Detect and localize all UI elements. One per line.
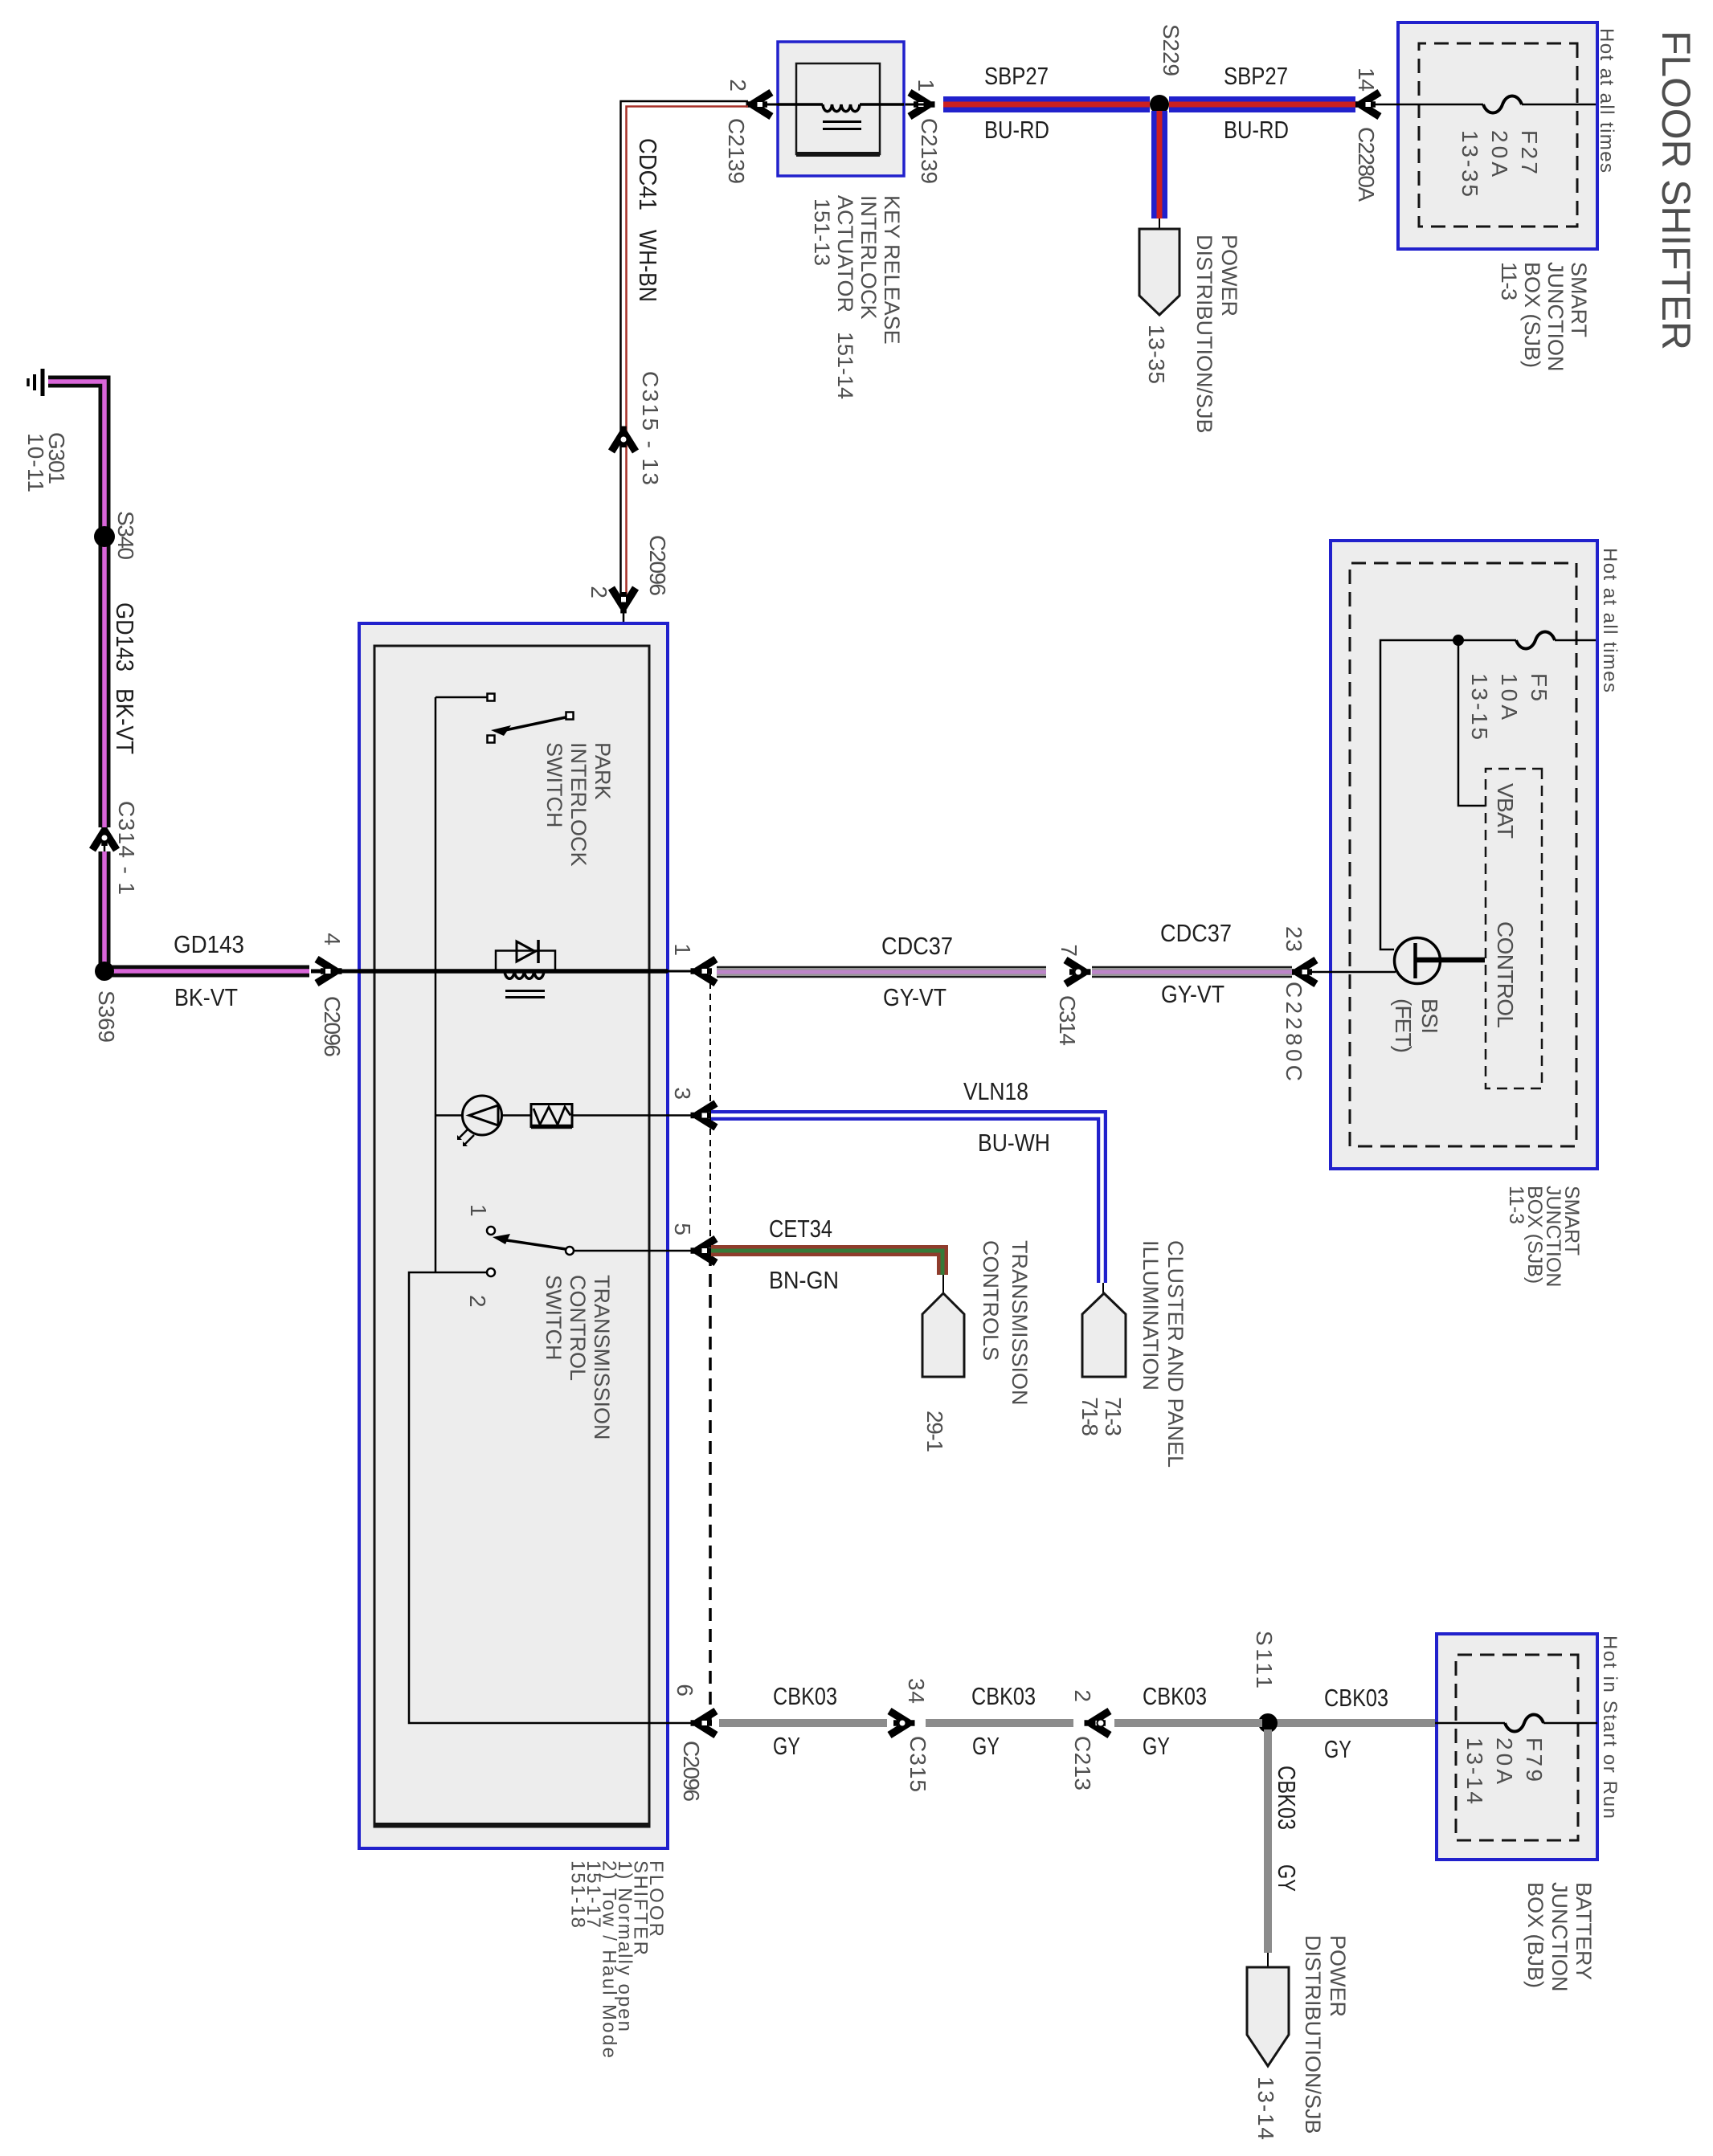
svg-text:ACTUATOR: ACTUATOR xyxy=(833,195,857,312)
LED indicator xyxy=(463,1096,502,1135)
svg-text:10A: 10A xyxy=(1497,673,1522,720)
svg-text:PARK: PARK xyxy=(591,742,615,800)
wire SBP27 BU-RD segment 2 xyxy=(943,96,1150,112)
box battery junction box BJB xyxy=(1437,1634,1597,1860)
dashed connector line C2096 xyxy=(709,971,711,1253)
svg-text:CBK03: CBK03 xyxy=(773,1682,837,1710)
off-page connector POWER DISTRIBUTION/SJB (bottom) xyxy=(1247,1967,1289,2066)
svg-text:C315: C315 xyxy=(906,1736,930,1792)
svg-text:(FET): (FET) xyxy=(1391,998,1416,1053)
svg-text:BK-VT: BK-VT xyxy=(111,688,139,754)
svg-text:2: 2 xyxy=(465,1295,490,1308)
svg-text:GY: GY xyxy=(1273,1864,1301,1892)
wire terminal 2 to pin 6 xyxy=(409,1272,693,1723)
svg-text:SBP27: SBP27 xyxy=(984,62,1049,90)
svg-text:5: 5 xyxy=(670,1223,695,1235)
svg-text:FLOOR SHIFTER: FLOOR SHIFTER xyxy=(1654,31,1699,350)
box SJB1 smart junction box xyxy=(1398,22,1597,249)
svg-text:SWITCH: SWITCH xyxy=(542,742,566,827)
svg-text:GY: GY xyxy=(1324,1735,1351,1763)
svg-text:BK-VT: BK-VT xyxy=(174,983,238,1011)
svg-text:GY: GY xyxy=(972,1732,1000,1760)
connector arrow C2096 pin 1 xyxy=(691,959,717,983)
coil of actuator xyxy=(860,103,904,106)
connector arrow C314 pin 7 xyxy=(1065,960,1091,984)
connector arrow C213 pin 2 xyxy=(1085,1711,1110,1735)
svg-text:INTERLOCK: INTERLOCK xyxy=(566,742,591,867)
connector arrow C2096 pin 5 xyxy=(691,1239,717,1263)
svg-text:POWER: POWER xyxy=(1326,1935,1350,2017)
svg-text:BSI: BSI xyxy=(1417,998,1442,1034)
svg-text:BN-GN: BN-GN xyxy=(769,1266,839,1294)
svg-text:ILLUMINATION: ILLUMINATION xyxy=(1139,1240,1163,1390)
transistor BSI FET xyxy=(1395,938,1441,984)
svg-text:SMART: SMART xyxy=(1567,262,1591,337)
svg-text:C2139: C2139 xyxy=(724,118,749,184)
wire VLN18 BU-WH xyxy=(711,1116,1102,1284)
svg-text:KEY RELEASE: KEY RELEASE xyxy=(880,195,904,345)
box key release interlock actuator xyxy=(778,42,904,176)
svg-text:DISTRIBUTION/SJB: DISTRIBUTION/SJB xyxy=(1301,1935,1325,2134)
svg-text:BU-WH: BU-WH xyxy=(978,1129,1050,1157)
svg-text:3: 3 xyxy=(670,1087,695,1100)
wire SBP27 BU-RD segment 1 xyxy=(1169,96,1355,112)
svg-text:10-11: 10-11 xyxy=(23,433,48,492)
wire internal bus xyxy=(435,697,437,1272)
off-page connector TRANSMISSION CONTROLS xyxy=(922,1293,964,1377)
svg-text:CBK03: CBK03 xyxy=(971,1682,1036,1710)
svg-text:CBK03: CBK03 xyxy=(1143,1682,1207,1710)
svg-text:GD143: GD143 xyxy=(174,930,244,958)
svg-text:C2096: C2096 xyxy=(320,996,345,1057)
svg-text:SBP27: SBP27 xyxy=(1224,62,1288,90)
svg-text:C2139: C2139 xyxy=(917,118,942,184)
dashed box VBAT/CONTROL xyxy=(1486,769,1542,1088)
svg-text:JUNCTION: JUNCTION xyxy=(1547,1882,1572,1992)
svg-text:S229: S229 xyxy=(1159,24,1184,76)
wire branch CBK03 to power distribution xyxy=(1264,1729,1272,1953)
svg-text:CDC41: CDC41 xyxy=(634,138,662,210)
wire CBK03 GY segment C xyxy=(926,1719,1073,1727)
off-page connector POWER DISTRIBUTION/SJB (top) xyxy=(1139,229,1179,315)
svg-text:11-3: 11-3 xyxy=(1497,262,1521,300)
svg-text:13-35: 13-35 xyxy=(1144,325,1169,384)
svg-text:BOX (BJB): BOX (BJB) xyxy=(1523,1882,1547,1988)
svg-text:CET34: CET34 xyxy=(769,1215,832,1243)
svg-text:71-3: 71-3 xyxy=(1101,1397,1126,1436)
connector arrow C2096 pin 4 xyxy=(317,959,342,983)
svg-text:TRANSMISSION: TRANSMISSION xyxy=(1008,1240,1032,1406)
svg-text:71-8: 71-8 xyxy=(1077,1397,1102,1436)
svg-text:1: 1 xyxy=(914,79,938,92)
svg-text:CBK03: CBK03 xyxy=(1273,1766,1301,1830)
svg-text:CONTROL: CONTROL xyxy=(566,1275,590,1381)
wire CDC37 GY-VT segment 1 xyxy=(717,966,1046,978)
wire CBK03 GY segment B xyxy=(1114,1719,1262,1727)
svg-text:13-14: 13-14 xyxy=(1253,2076,1278,2140)
node S369 xyxy=(95,962,114,981)
wire pin3 to resistor xyxy=(572,1114,693,1117)
connector arrow C315 pin 34 xyxy=(889,1711,915,1735)
connector arrow C314-1 inline xyxy=(104,829,106,851)
ground G301 xyxy=(41,369,45,396)
wire F5 down and across xyxy=(1380,640,1516,949)
svg-text:C2280A: C2280A xyxy=(1354,127,1379,202)
svg-text:BU-RD: BU-RD xyxy=(1224,116,1289,144)
svg-text:13-15: 13-15 xyxy=(1467,673,1492,740)
svg-text:BATTERY: BATTERY xyxy=(1572,1882,1596,1980)
svg-text:2: 2 xyxy=(1070,1689,1095,1702)
svg-text:20A: 20A xyxy=(1487,130,1512,177)
svg-text:CDC37: CDC37 xyxy=(1160,919,1232,947)
svg-text:S369: S369 xyxy=(94,990,119,1043)
svg-text:CBK03: CBK03 xyxy=(1324,1684,1388,1712)
connector arrow C315-13 inline xyxy=(611,427,636,452)
svg-text:CDC37: CDC37 xyxy=(881,932,953,960)
svg-text:BU-RD: BU-RD xyxy=(984,116,1049,144)
wire GD143 BK-VT segment to S369 xyxy=(104,851,309,971)
wire CBK03 GY segment D xyxy=(719,1719,887,1727)
wire park switch to bus xyxy=(435,696,487,699)
node S340 xyxy=(94,526,115,547)
svg-text:20A: 20A xyxy=(1492,1737,1517,1784)
wire main solenoid feed xyxy=(668,970,693,973)
svg-text:INTERLOCK: INTERLOCK xyxy=(856,195,881,320)
wire branch to VBAT xyxy=(1458,640,1486,806)
svg-text:34: 34 xyxy=(904,1678,929,1704)
node S111 xyxy=(1258,1713,1278,1733)
svg-text:11-3: 11-3 xyxy=(1505,1186,1527,1224)
fuse F5 xyxy=(1516,632,1555,649)
svg-text:DISTRIBUTION/SJB: DISTRIBUTION/SJB xyxy=(1192,235,1216,434)
svg-text:F79: F79 xyxy=(1522,1737,1547,1782)
box SJB2 smart junction box (BSI) xyxy=(1331,541,1597,1169)
svg-text:SWITCH: SWITCH xyxy=(542,1275,566,1360)
wire CBK03 GY segment A xyxy=(1274,1719,1435,1727)
svg-text:GD143: GD143 xyxy=(111,602,139,672)
wire pin5 to switch xyxy=(574,1250,693,1252)
svg-text:C314 - 1: C314 - 1 xyxy=(114,801,139,895)
svg-text:13-35: 13-35 xyxy=(1457,130,1482,197)
svg-text:13-14: 13-14 xyxy=(1462,1737,1487,1804)
svg-text:C2096: C2096 xyxy=(679,1741,704,1802)
fuse F27 xyxy=(1483,96,1522,113)
svg-text:151-18: 151-18 xyxy=(567,1860,589,1928)
switch transmission control xyxy=(566,1247,574,1255)
wire branch to power distribution xyxy=(1151,111,1167,218)
dashed internal box SJB1 xyxy=(1419,43,1577,227)
svg-text:CONTROLS: CONTROLS xyxy=(979,1240,1003,1361)
svg-text:GY-VT: GY-VT xyxy=(883,983,946,1011)
fuse F79 xyxy=(1505,1715,1543,1732)
connector arrow C2280A pin 14 xyxy=(1355,92,1380,116)
svg-text:CONTROL: CONTROL xyxy=(1493,921,1518,1028)
svg-text:CLUSTER AND PANEL: CLUSTER AND PANEL xyxy=(1163,1240,1188,1468)
svg-text:VLN18: VLN18 xyxy=(963,1077,1028,1105)
svg-text:7: 7 xyxy=(1057,944,1081,957)
svg-text:VBAT: VBAT xyxy=(1493,783,1518,839)
svg-text:WH-BN: WH-BN xyxy=(634,230,662,302)
svg-text:Hot at all times: Hot at all times xyxy=(1596,28,1617,173)
node S229 xyxy=(1150,95,1169,114)
wire CDC41 WH-BN xyxy=(621,101,749,600)
connector arrow C2280C pin 23 xyxy=(1291,960,1317,984)
svg-text:POWER: POWER xyxy=(1217,235,1241,316)
box FLOOR SHIFTER assembly xyxy=(359,623,668,1848)
wire F27 to connector xyxy=(1359,104,1483,106)
wire feed into F27 xyxy=(1522,104,1596,106)
svg-text:1: 1 xyxy=(670,943,695,956)
svg-text:BOX (SJB): BOX (SJB) xyxy=(1520,262,1544,368)
svg-text:4: 4 xyxy=(320,933,345,945)
connector arrow C2096 pin 6 xyxy=(691,1711,717,1735)
svg-text:GY: GY xyxy=(1143,1732,1170,1760)
wire into park interlock switch xyxy=(573,609,623,716)
svg-text:23: 23 xyxy=(1282,926,1306,952)
svg-text:14: 14 xyxy=(1354,67,1379,92)
connector arrow C2139 pin 2 xyxy=(752,104,778,106)
svg-text:1: 1 xyxy=(466,1204,491,1217)
switch park interlock xyxy=(566,713,574,720)
svg-text:2: 2 xyxy=(726,79,750,92)
svg-text:C213: C213 xyxy=(1070,1736,1095,1791)
wire feed into F5 xyxy=(1555,639,1596,642)
wire CDC37 GY-VT segment 2 xyxy=(1092,966,1292,978)
wire CET34 BN-GN xyxy=(711,1251,942,1275)
svg-text:F27: F27 xyxy=(1517,130,1542,174)
svg-text:151-14: 151-14 xyxy=(833,332,857,399)
svg-text:TRANSMISSION: TRANSMISSION xyxy=(590,1275,614,1440)
wire feed into F79 xyxy=(1543,1722,1597,1725)
svg-text:C314: C314 xyxy=(1055,995,1080,1046)
connector arrow C2096 pin 3 xyxy=(691,1104,717,1128)
wire GD143 BK-VT segment to ground xyxy=(48,382,104,827)
off-page connector CLUSTER AND PANEL ILLUMINATION xyxy=(1082,1293,1126,1377)
svg-text:GY: GY xyxy=(773,1732,800,1760)
connector arrow C2139 pin 1 xyxy=(910,92,935,116)
connector arrow C2096 pin 2 xyxy=(611,588,636,614)
svg-text:151-13: 151-13 xyxy=(810,198,834,266)
resistor illumination xyxy=(531,1105,572,1127)
svg-text:Hot in Start or Run: Hot in Start or Run xyxy=(1599,1635,1621,1819)
svg-text:S340: S340 xyxy=(113,511,138,560)
svg-text:6: 6 xyxy=(673,1684,697,1697)
svg-text:2: 2 xyxy=(587,586,611,598)
diode flyback loop xyxy=(496,951,555,972)
svg-text:C2096: C2096 xyxy=(645,535,670,596)
node on feed xyxy=(1453,635,1464,646)
svg-text:Hot at all times: Hot at all times xyxy=(1599,548,1621,692)
svg-text:JUNCTION: JUNCTION xyxy=(1543,262,1568,372)
coil shift interlock solenoid xyxy=(505,971,544,978)
svg-text:GY-VT: GY-VT xyxy=(1161,980,1224,1008)
svg-text:29-1: 29-1 xyxy=(922,1411,947,1452)
